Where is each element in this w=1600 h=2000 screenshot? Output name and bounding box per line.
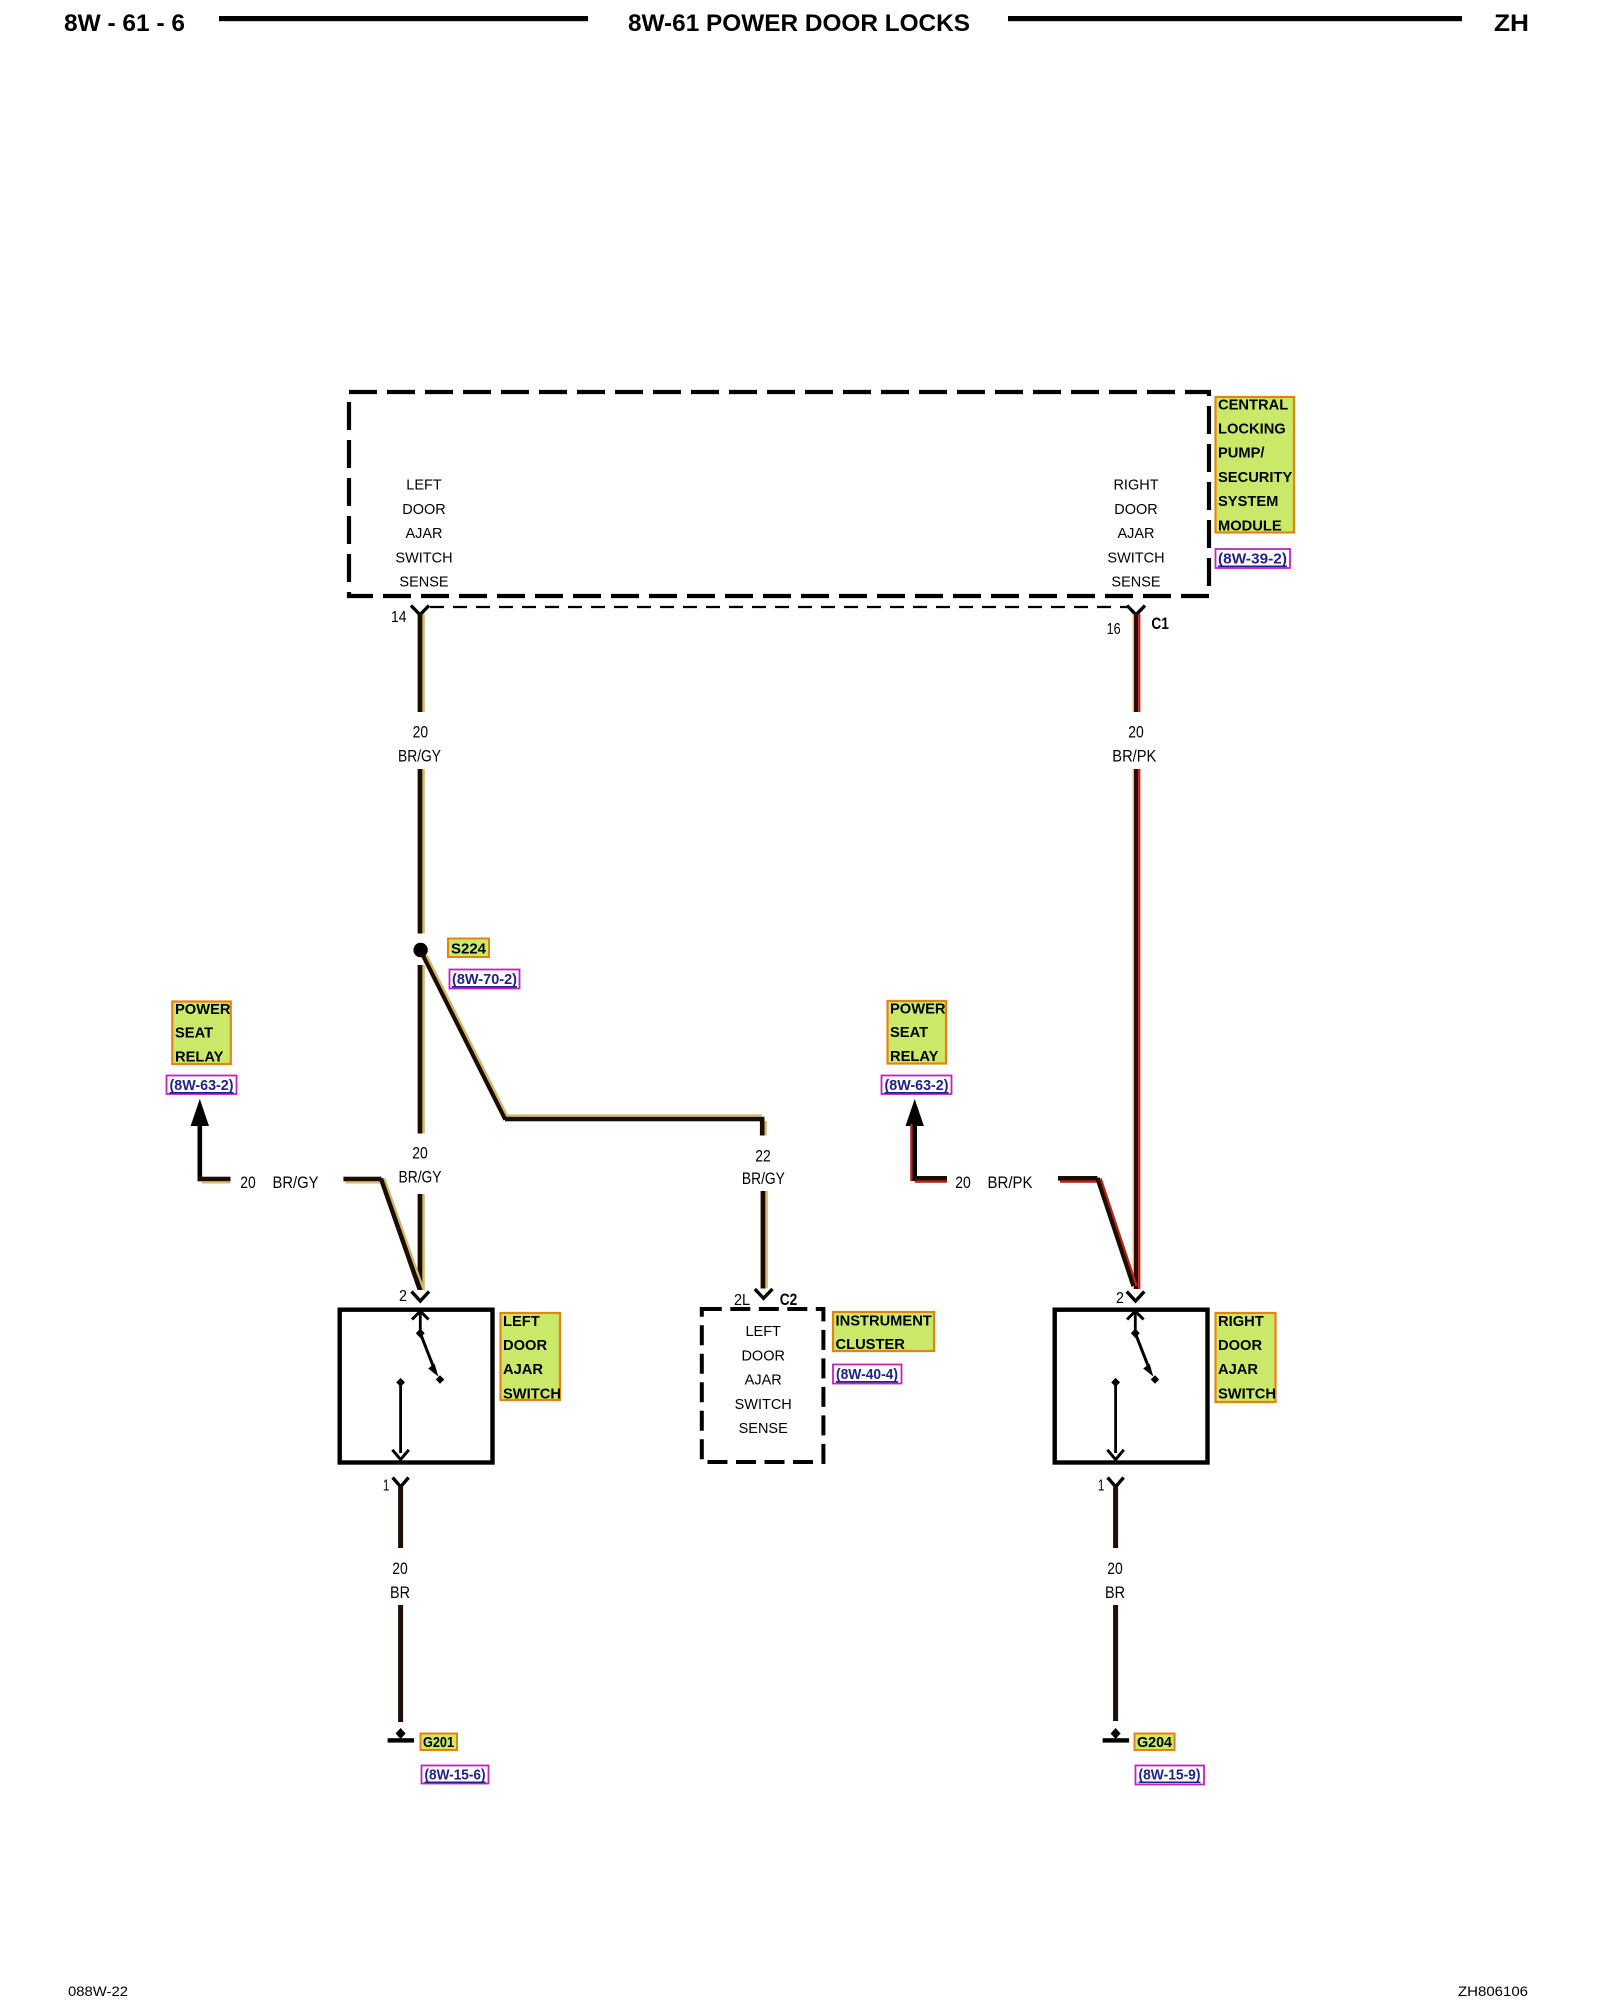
svg-text:20: 20	[1128, 723, 1144, 742]
svg-text:8W-61 POWER DOOR LOCKS: 8W-61 POWER DOOR LOCKS	[628, 10, 970, 37]
right door ajar switch box	[1055, 1310, 1208, 1463]
pin 2 connector Y left switch	[412, 1292, 430, 1302]
ground link 8W-15-6	[422, 1766, 489, 1784]
module link 8W-39-2	[1216, 549, 1291, 568]
wire 20 BR/GY (segment D to pin 2)	[418, 1194, 425, 1290]
module label CENTRAL LOCKING PUMP/SECURITY SYSTEM MODULE	[1216, 397, 1295, 534]
svg-text:8W - 61 - 6: 8W - 61 - 6	[64, 10, 185, 37]
svg-text:1: 1	[1098, 1478, 1105, 1495]
module left pin text LEFT DOOR AJAR SWITCH SENSE	[395, 478, 452, 591]
svg-text:RELAY: RELAY	[175, 1049, 224, 1065]
svg-text:SWITCH: SWITCH	[735, 1397, 792, 1413]
power seat relay link right 8W-63-2	[882, 1076, 952, 1095]
svg-text:LEFT: LEFT	[745, 1324, 781, 1340]
central locking pump module dashed box	[349, 392, 1209, 596]
wire 20 BR left lower	[398, 1605, 403, 1722]
header rule right	[1008, 16, 1462, 21]
svg-text:(8W-15-9): (8W-15-9)	[1139, 1767, 1201, 1784]
svg-text:LEFT: LEFT	[503, 1314, 540, 1330]
svg-text:BR/GY: BR/GY	[742, 1169, 785, 1188]
svg-text:SWITCH: SWITCH	[503, 1386, 561, 1402]
svg-text:BR: BR	[1105, 1583, 1125, 1602]
left switch pivot contact	[416, 1328, 425, 1338]
right switch pivot contact	[1131, 1328, 1140, 1338]
svg-text:ZH806106: ZH806106	[1458, 1984, 1528, 1999]
svg-text:20: 20	[413, 723, 429, 742]
svg-text:20: 20	[392, 1559, 408, 1578]
svg-text:1: 1	[383, 1478, 390, 1495]
power seat relay link left 8W-63-2	[167, 1076, 237, 1095]
svg-text:AJAR: AJAR	[405, 526, 442, 542]
wire 20 BR/PK from pin 16 (segment A)	[1132, 614, 1141, 712]
arrow to power seat relay left	[191, 1099, 209, 1181]
svg-text:DOOR: DOOR	[402, 502, 446, 518]
svg-text:BR: BR	[390, 1583, 410, 1602]
svg-text:SENSE: SENSE	[739, 1421, 788, 1437]
left switch lower contact	[392, 1378, 408, 1460]
svg-text:POWER: POWER	[890, 1002, 946, 1018]
power seat relay label left	[172, 1002, 231, 1066]
svg-text:BR/PK: BR/PK	[1112, 747, 1157, 766]
left switch blade	[420, 1333, 444, 1384]
svg-text:22: 22	[755, 1147, 771, 1166]
svg-text:S224: S224	[451, 942, 487, 958]
svg-text:BR/GY: BR/GY	[273, 1173, 319, 1192]
svg-text:(8W-39-2): (8W-39-2)	[1218, 551, 1287, 568]
svg-text:G204: G204	[1137, 1735, 1173, 1751]
wire 20 BR/GY (segment B to splice)	[418, 769, 425, 934]
pin 16 connector Y	[1127, 606, 1145, 615]
ground G201 symbol	[388, 1728, 415, 1743]
svg-text:SENSE: SENSE	[1111, 575, 1160, 591]
header rule left	[219, 16, 588, 21]
instrument cluster link 8W-40-4	[833, 1365, 902, 1384]
svg-text:POWER: POWER	[175, 1002, 231, 1018]
svg-text:(8W-63-2): (8W-63-2)	[170, 1077, 234, 1094]
arrow to power seat relay right	[906, 1099, 924, 1181]
ground G204 symbol	[1103, 1728, 1130, 1743]
svg-text:CENTRAL: CENTRAL	[1218, 397, 1288, 413]
svg-text:RIGHT: RIGHT	[1113, 478, 1158, 494]
wire 20 BR right upper	[1113, 1487, 1118, 1548]
svg-text:(8W-63-2): (8W-63-2)	[885, 1077, 949, 1094]
svg-text:BR/PK: BR/PK	[988, 1173, 1034, 1192]
svg-text:SENSE: SENSE	[399, 575, 448, 591]
pin 2L connector Y	[755, 1289, 773, 1298]
connector C1 dashed line between pins	[430, 606, 1127, 608]
svg-text:20: 20	[240, 1173, 256, 1192]
svg-text:MODULE: MODULE	[1218, 518, 1282, 534]
branch wire label 20 BR/PK	[955, 1173, 1033, 1192]
branch wire label 20 BR/GY	[240, 1173, 318, 1192]
right switch internal top arrow	[1127, 1311, 1144, 1331]
instrument cluster label	[833, 1312, 934, 1353]
svg-text:2: 2	[1116, 1290, 1124, 1307]
svg-text:2: 2	[399, 1288, 407, 1305]
wire label 20 BR/PK	[1112, 723, 1157, 766]
left door ajar switch box	[340, 1310, 493, 1463]
module right pin text RIGHT DOOR AJAR SWITCH SENSE	[1107, 478, 1164, 591]
instrument cluster pin text LEFT DOOR AJAR SWITCH SENSE	[735, 1324, 792, 1437]
svg-text:DOOR: DOOR	[741, 1348, 785, 1364]
svg-text:INSTRUMENT: INSTRUMENT	[836, 1313, 932, 1329]
svg-text:20: 20	[412, 1144, 428, 1163]
svg-text:(8W-15-6): (8W-15-6)	[425, 1767, 486, 1784]
svg-text:CLUSTER: CLUSTER	[836, 1337, 906, 1353]
svg-text:LOCKING: LOCKING	[1218, 422, 1286, 438]
svg-text:BR/GY: BR/GY	[399, 1168, 442, 1187]
wire label 20 BR left	[390, 1559, 410, 1602]
wire 20 BR/GY from pin 14 (segment A)	[418, 614, 425, 712]
ground label G204	[1135, 1734, 1175, 1752]
wire 20 BR/PK branch horizontal left piece	[912, 1176, 947, 1183]
power seat relay label right	[888, 1001, 947, 1065]
wire 22 BR/GY lower segment to 2L	[761, 1191, 768, 1289]
wire 22 BR/GY horizontal run	[505, 1114, 764, 1121]
wire 20 BR left upper	[398, 1487, 403, 1548]
wire 20 BR/PK branch horizontal right piece	[1058, 1176, 1098, 1183]
wire 20 BR right lower	[1113, 1605, 1118, 1721]
svg-text:AJAR: AJAR	[1218, 1362, 1258, 1378]
svg-text:AJAR: AJAR	[1117, 526, 1154, 542]
svg-text:SYSTEM: SYSTEM	[1218, 494, 1278, 510]
svg-text:LEFT: LEFT	[406, 478, 442, 494]
wire 22 BR/GY corner down	[760, 1119, 767, 1136]
splice link 8W-70-2	[450, 970, 520, 989]
wire 20 BR/GY branch horizontal right piece	[343, 1177, 381, 1184]
wire 20 BR/GY branch diagonal to pin 2	[381, 1179, 423, 1290]
svg-text:SEAT: SEAT	[175, 1026, 213, 1042]
svg-text:SEAT: SEAT	[890, 1025, 928, 1041]
wire 20 BR/GY (segment C below splice)	[418, 965, 425, 1134]
svg-text:ZH: ZH	[1494, 10, 1529, 37]
svg-text:AJAR: AJAR	[503, 1362, 543, 1378]
svg-text:PUMP/: PUMP/	[1218, 446, 1265, 462]
wire label 22 BR/GY	[742, 1147, 785, 1189]
svg-text:088W-22: 088W-22	[68, 1984, 128, 1999]
svg-text:C2: C2	[780, 1290, 798, 1309]
svg-text:SWITCH: SWITCH	[395, 550, 452, 566]
svg-text:RELAY: RELAY	[890, 1049, 939, 1065]
svg-text:(8W-40-4): (8W-40-4)	[836, 1366, 898, 1383]
instrument cluster dashed box	[702, 1309, 824, 1462]
ground link 8W-15-9	[1136, 1766, 1205, 1785]
wire 22 BR/GY diagonal from splice	[423, 955, 509, 1120]
pin 1 connector Y left	[393, 1478, 409, 1487]
left switch internal top arrow	[412, 1311, 429, 1331]
right door ajar switch label	[1216, 1313, 1276, 1402]
svg-text:DOOR: DOOR	[503, 1338, 547, 1354]
pin 14 connector Y	[411, 606, 429, 615]
ground label G201	[421, 1734, 458, 1752]
svg-text:14: 14	[391, 609, 407, 626]
svg-text:BR/GY: BR/GY	[398, 747, 441, 766]
svg-text:DOOR: DOOR	[1114, 502, 1158, 518]
svg-text:SECURITY: SECURITY	[1218, 470, 1292, 486]
wire 20 BR/PK branch diagonal to pin 2	[1098, 1178, 1137, 1286]
svg-text:G201: G201	[423, 1735, 454, 1751]
svg-text:16: 16	[1107, 621, 1121, 638]
svg-text:(8W-70-2): (8W-70-2)	[452, 971, 517, 988]
right switch lower contact	[1107, 1378, 1123, 1460]
wire 20 BR/PK long segment to pin 2	[1132, 769, 1141, 1289]
right switch blade	[1135, 1333, 1159, 1384]
splice S224	[413, 943, 427, 957]
svg-text:20: 20	[1107, 1559, 1123, 1578]
svg-text:RIGHT: RIGHT	[1218, 1314, 1264, 1330]
svg-text:20: 20	[955, 1173, 971, 1192]
splice label S224	[448, 939, 489, 958]
wire label 20 BR right	[1105, 1559, 1125, 1602]
left door ajar switch label	[501, 1313, 561, 1402]
svg-text:C1: C1	[1151, 614, 1169, 633]
svg-text:AJAR: AJAR	[745, 1373, 782, 1389]
svg-text:DOOR: DOOR	[1218, 1338, 1262, 1354]
pin 2 connector Y right switch	[1127, 1292, 1145, 1302]
svg-text:SWITCH: SWITCH	[1107, 550, 1164, 566]
wire label 20 BR/GY lower	[399, 1144, 442, 1187]
wire label 20 BR/GY upper	[398, 723, 441, 766]
pin 1 connector Y right	[1108, 1478, 1124, 1487]
svg-text:2L: 2L	[734, 1292, 750, 1309]
wire 20 BR/GY branch horizontal left piece	[198, 1177, 231, 1184]
svg-text:SWITCH: SWITCH	[1218, 1386, 1276, 1402]
